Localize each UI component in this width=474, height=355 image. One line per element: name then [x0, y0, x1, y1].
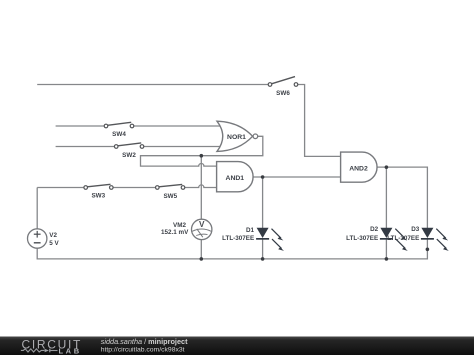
switch SW3	[84, 184, 113, 199]
node junction on D3 cathode wire	[426, 248, 430, 252]
wire NOR1 output to AND1 upper input (with hop)	[141, 136, 263, 166]
switch SW4	[104, 122, 134, 138]
switch SW6	[268, 77, 298, 97]
node junction at AND1 output / D1 tap	[261, 175, 265, 179]
wire top rail to SW6	[37, 84, 270, 86]
wire SW2 to NOR1 input	[142, 146, 222, 148]
LED D1	[222, 227, 284, 251]
svg-text:SW5: SW5	[163, 193, 177, 200]
wire AND1 output to AND2 lower input	[253, 176, 341, 178]
svg-text:VM2: VM2	[173, 222, 186, 229]
svg-text:NOR1: NOR1	[227, 134, 246, 141]
svg-text:SW2: SW2	[122, 152, 136, 159]
svg-text:D2: D2	[370, 226, 379, 233]
wire D1 cathode down	[262, 239, 264, 259]
wire SW4 left stub	[56, 125, 106, 127]
wire VM2 bottom	[200, 240, 202, 259]
svg-text:D1: D1	[246, 227, 255, 234]
svg-text:V2: V2	[49, 232, 57, 239]
svg-text:http://circuitlab.com/ck98x3t: http://circuitlab.com/ck98x3t	[101, 347, 185, 354]
node junction VM2 to ground rail	[200, 257, 204, 261]
node junction D1 to ground rail	[261, 257, 265, 261]
svg-text:LTL-307EE: LTL-307EE	[387, 235, 419, 242]
svg-text:5 V: 5 V	[49, 240, 59, 247]
gate AND2	[341, 152, 377, 182]
wire SW3 to SW5	[111, 187, 157, 189]
wire SW6 to AND2 upper input	[296, 85, 341, 157]
svg-text:sidda.santha / miniproject: sidda.santha / miniproject	[101, 337, 188, 346]
node junction at AND2 output / D2 tap	[385, 165, 389, 169]
svg-text:SW3: SW3	[91, 193, 105, 200]
LED D2	[346, 226, 408, 251]
wire SW2 left stub	[56, 146, 117, 148]
svg-text:152.1 mV: 152.1 mV	[161, 229, 189, 236]
voltage source V2	[28, 229, 60, 248]
wire VM2 branch vertical	[200, 156, 202, 220]
svg-text:LAB: LAB	[59, 346, 82, 355]
svg-text:SW4: SW4	[112, 131, 126, 138]
wire left vertical to V2	[36, 188, 38, 229]
wire AND2 output rail	[377, 167, 427, 228]
node junction D2 to ground rail	[385, 257, 389, 261]
wire bottom rail	[37, 239, 427, 259]
svg-text:D3: D3	[411, 226, 420, 233]
node junction at NOR1 output / VM2 tap	[200, 154, 204, 158]
voltmeter VM2	[161, 219, 212, 239]
wire SW4 to NOR1 input	[132, 125, 222, 127]
wire SW5 to AND1 lower input (with hop)	[183, 185, 217, 188]
wire SW3 left stub	[37, 187, 85, 189]
gate NOR1	[217, 121, 258, 151]
wire D2 cathode down	[385, 239, 387, 259]
svg-text:AND1: AND1	[226, 175, 245, 182]
svg-text:LTL-307EE: LTL-307EE	[346, 235, 378, 242]
svg-text:SW6: SW6	[276, 90, 290, 97]
switch SW2	[114, 143, 143, 159]
wire D1 branch	[262, 177, 264, 228]
footer bar	[0, 337, 474, 355]
svg-text:V: V	[199, 220, 205, 229]
svg-text:AND2: AND2	[349, 165, 368, 172]
LED D3	[387, 226, 449, 251]
wire D2 branch	[385, 167, 387, 228]
svg-text:LTL-307EE: LTL-307EE	[222, 235, 254, 242]
switch SW5	[156, 184, 185, 200]
gate AND1	[217, 162, 253, 192]
